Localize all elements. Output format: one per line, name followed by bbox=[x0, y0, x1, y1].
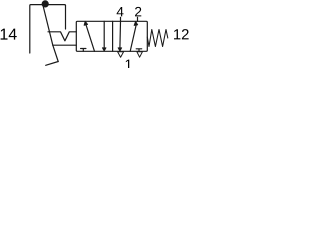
notch plate bottom link bbox=[53, 44, 77, 46]
exhaust triangle port 3 bbox=[137, 52, 143, 57]
pedal lever bbox=[43, 6, 58, 62]
right position flow 1-2 (arrow up) bbox=[130, 24, 136, 51]
label 2 bbox=[135, 7, 141, 17]
left position blocked port 5 (T) bbox=[81, 49, 86, 52]
valve body outline bbox=[76, 21, 147, 51]
left position flow 2-3 (arrow down) bbox=[103, 21, 105, 48]
pedal foot plate bbox=[46, 62, 59, 66]
notch plate top with V notch bbox=[48, 32, 76, 41]
port 4 stub bbox=[120, 17, 122, 21]
label 12 bbox=[174, 29, 189, 39]
right position blocked port 3 (T) bbox=[136, 49, 142, 52]
port 2 stub bbox=[137, 17, 139, 21]
label 14 bbox=[1, 29, 17, 40]
return spring bbox=[147, 30, 168, 47]
detent knob (filled ball) bbox=[42, 0, 49, 7]
detent frame (L-shaped latch arm) bbox=[30, 5, 66, 53]
left position flow 1-4 (arrow up) bbox=[86, 24, 95, 51]
detent pin bbox=[65, 6, 67, 29]
exhaust triangle port 5 bbox=[118, 52, 124, 57]
right position flow 4-5 (arrow down) bbox=[119, 21, 122, 48]
label 1 bbox=[126, 60, 132, 70]
position divider bbox=[112, 21, 114, 51]
label 4 bbox=[117, 7, 124, 16]
